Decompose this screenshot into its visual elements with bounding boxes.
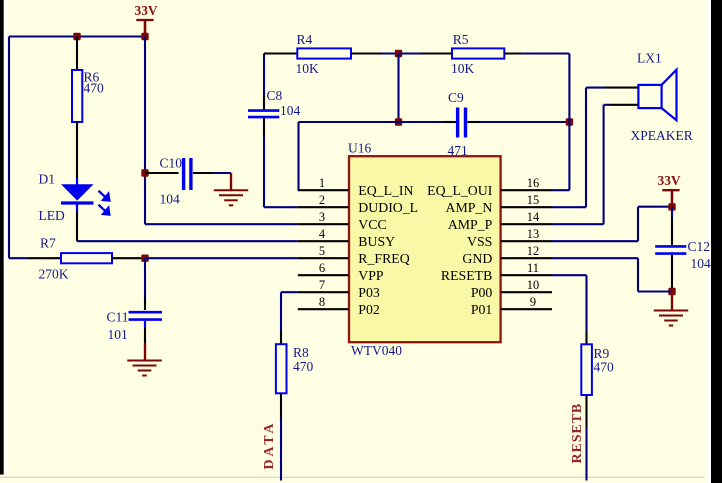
pin 1 stub [298,189,349,191]
power 33V right [658,173,681,207]
svg-text:470: 470 [293,359,314,374]
pin 16 stub [501,189,553,191]
wire [280,331,282,344]
pin 13 stub [501,240,553,242]
svg-text:R8: R8 [293,345,309,360]
svg-text:101: 101 [108,327,128,342]
svg-text:12: 12 [527,244,539,258]
wire [9,35,145,37]
svg-text:33V: 33V [135,3,158,18]
wire [263,136,265,207]
wire [76,122,78,180]
wire [144,327,146,343]
wire [77,240,298,242]
svg-text:R_FREQ: R_FREQ [358,251,409,266]
junction dot [566,118,573,125]
svg-text:P02: P02 [358,302,380,317]
wire [263,95,265,110]
wire [144,258,146,297]
pin 10 stub [501,291,553,293]
op-amp U1 body (IC U16 WTV040) [348,140,501,358]
svg-text:9: 9 [530,295,536,309]
wire [468,121,481,123]
left screen border [0,0,4,475]
wire [504,52,521,54]
wire [604,104,610,106]
svg-text:104: 104 [160,191,181,206]
svg-text:270K: 270K [39,266,69,281]
wire [280,418,282,481]
wire [264,52,297,54]
wire [8,37,10,259]
svg-text:LED: LED [39,208,65,223]
pin 6 stub [298,274,349,276]
capacitor C10 [160,155,191,206]
right screen border [705,0,711,483]
svg-text:WTV040: WTV040 [351,343,402,358]
wire [521,52,569,54]
wire [568,54,570,191]
wire [193,172,213,174]
wire [144,321,146,327]
pin 2 stub [298,206,349,208]
svg-text:BUSY: BUSY [358,234,395,249]
junction dot [141,169,148,176]
svg-text:470: 470 [594,359,615,374]
svg-text:P00: P00 [471,285,493,300]
wire [27,257,61,259]
wire [671,255,673,287]
svg-text:R5: R5 [453,32,469,47]
svg-text:10K: 10K [296,61,320,76]
svg-text:VCC: VCC [358,217,386,232]
wire [297,122,299,190]
junction dot [395,50,402,57]
wire [606,87,639,89]
pin 3 stub [298,223,349,225]
junction dot [668,203,675,210]
wire [263,118,265,136]
resistor R6 [72,69,104,122]
power 33V left [135,3,158,37]
svg-text:8: 8 [319,295,325,309]
svg-text:LX1: LX1 [637,51,662,66]
window edge line [0,476,711,478]
svg-text:AMP_N: AMP_N [446,200,493,215]
resistor R8 [276,344,314,393]
svg-text:C12: C12 [688,239,711,254]
svg-text:VSS: VSS [467,234,492,249]
svg-text:EQ_L_OUI: EQ_L_OUI [427,183,493,198]
junction dot [141,255,148,262]
ground [127,343,162,376]
wire [671,218,673,245]
wire [76,37,78,71]
svg-text:RESETB: RESETB [441,268,492,283]
svg-text:14: 14 [527,210,539,224]
speaker LX1 [631,51,693,144]
wire pin16 to C9 node [552,189,569,191]
ground [214,173,249,205]
svg-text:C11: C11 [107,309,129,324]
svg-text:RESETB: RESETB [570,403,585,464]
pin 5 stub [298,257,349,259]
svg-text:33V: 33V [658,173,681,188]
capacitor C11 [107,309,163,342]
wire [480,121,569,123]
wire [585,395,587,427]
svg-text:10: 10 [527,278,539,292]
wire [444,121,456,123]
wire [351,52,382,54]
svg-text:10K: 10K [451,61,475,76]
svg-text:EQ_L_IN: EQ_L_IN [358,183,413,198]
wire [145,223,298,225]
wire [112,257,142,259]
pin 9 stub [501,308,553,310]
diode D1 (LED) [39,172,110,223]
pin 12 stub [501,257,553,259]
svg-text:104: 104 [691,256,712,271]
svg-text:XPEAKER: XPEAKER [631,128,693,143]
resistor R4 [296,32,352,76]
svg-text:104: 104 [280,103,301,118]
svg-text:GND: GND [462,251,492,266]
svg-text:11: 11 [527,261,539,275]
svg-text:16: 16 [527,176,539,190]
pin 4 stub [298,240,349,242]
wire [9,257,27,259]
svg-text:P01: P01 [471,302,493,317]
wire [671,287,673,292]
wire [280,393,282,418]
svg-text:R7: R7 [40,235,56,250]
svg-text:6: 6 [319,261,325,275]
wire pin12 (GND) [552,257,638,259]
svg-text:C9: C9 [448,90,464,105]
svg-text:7: 7 [319,278,325,292]
svg-text:P03: P03 [358,285,380,300]
pin 8 stub [298,308,349,310]
wire [264,206,298,208]
pin 15 stub [501,206,553,208]
wire pin11 (RESETB) [552,274,587,276]
wire [397,54,399,123]
wire [399,52,422,54]
wire pin7 (P03) [281,291,298,293]
wire pin14 to speaker [552,223,604,225]
svg-text:C8: C8 [267,88,283,103]
junction dot [395,118,402,125]
wire [585,427,587,481]
svg-text:4: 4 [319,227,325,241]
wire [382,52,399,54]
svg-text:15: 15 [527,193,539,207]
resistor R5 [451,32,504,76]
svg-text:13: 13 [527,227,539,241]
capacitor C12 [655,239,711,271]
svg-text:2: 2 [319,193,325,207]
svg-text:3: 3 [319,210,325,224]
capacitor C9 [448,90,468,158]
svg-text:DATA: DATA [262,421,277,470]
svg-text:AMP_P: AMP_P [448,217,493,232]
svg-text:470: 470 [84,81,105,96]
pin 14 stub [501,223,553,225]
wire [263,54,265,96]
svg-text:U16: U16 [348,140,371,155]
svg-text:1: 1 [319,176,325,190]
wire [76,212,78,241]
wire [585,331,587,344]
pin 7 stub [298,291,349,293]
pin 11 stub [501,274,553,276]
wire [299,121,445,123]
wire [144,297,146,310]
wire pin13 (VSS) [552,240,638,242]
junction dot [668,288,675,295]
svg-text:VPP: VPP [358,268,384,283]
svg-text:R4: R4 [297,32,313,47]
capacitor C8 [248,88,301,118]
svg-text:DUDIO_L: DUDIO_L [358,200,418,215]
resistor R9 [581,344,614,395]
resistor R7 [39,235,113,281]
svg-text:5: 5 [319,244,325,258]
wire [145,257,298,259]
junction dot [73,33,80,40]
svg-text:C10: C10 [160,155,183,170]
svg-text:D1: D1 [39,172,56,187]
junction dot [141,33,148,40]
wire [671,207,673,218]
wire pin15 to speaker [552,206,586,208]
wire [421,52,452,54]
wire [144,37,146,225]
wire [145,172,179,174]
ground [654,292,689,326]
wire [213,172,231,174]
